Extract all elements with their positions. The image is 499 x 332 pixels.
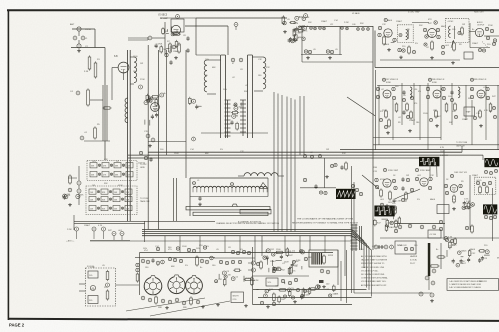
svg-text:1W: 1W (452, 245, 455, 247)
IF interstage network 2 (458, 87, 460, 98)
width coil box (231, 292, 244, 303)
svg-text:10%: 10% (196, 248, 200, 250)
svg-text:ANT: ANT (70, 23, 75, 26)
svg-text:RATIO DET: RATIO DET (474, 11, 485, 14)
resistor R2 (94, 63, 97, 77)
svg-text:TAKE OFF: TAKE OFF (140, 200, 150, 203)
svg-text:SPKR: SPKR (328, 255, 334, 257)
wire (258, 297, 372, 299)
output transformer T10 (309, 250, 338, 267)
resistor R8 (178, 44, 181, 52)
svg-text:1W: 1W (462, 24, 465, 26)
svg-text:CHASSIS GROUND. LINE: CHASSIS GROUND. LINE (361, 266, 385, 269)
svg-text:L30: L30 (414, 89, 417, 91)
right corner circles (484, 170, 487, 173)
svg-text:10%: 10% (205, 59, 209, 61)
tube V16 damper (186, 277, 203, 294)
tuner coil box (190, 196, 268, 198)
antenna terminal C1 (77, 27, 81, 31)
wire AGC line (128, 154, 483, 156)
tube V9 3rd IF (477, 90, 485, 98)
right edge parts (484, 215, 487, 218)
svg-text:WIDTH: WIDTH (233, 296, 240, 298)
wire (160, 17, 196, 19)
channel selector switch bar 2 (193, 212, 268, 215)
wire (147, 45, 149, 230)
parts right of W3 (351, 184, 354, 187)
RF transformer can (171, 19, 184, 32)
wire (71, 47, 105, 49)
wire (372, 26, 374, 250)
speaker terminals (252, 261, 256, 265)
svg-text:6K6 GT: 6K6 GT (287, 252, 296, 254)
wire (374, 31, 376, 68)
page border top (7, 9, 499, 11)
notes box (447, 279, 499, 291)
wire (104, 48, 106, 161)
transformer T3 ladder (242, 100, 244, 136)
svg-text:6AU6: 6AU6 (461, 250, 467, 253)
svg-text:2.2M: 2.2M (90, 267, 95, 269)
hold control dashed box (474, 177, 495, 194)
wire bus vertical drops (273, 92, 275, 232)
wire (147, 37, 149, 40)
wire (253, 289, 367, 291)
svg-text:12AU7: 12AU7 (84, 224, 91, 227)
IF row wires (377, 85, 499, 87)
svg-text:2.2M: 2.2M (344, 22, 349, 24)
wire (158, 50, 160, 230)
svg-text:2ND VIDEO IF: 2ND VIDEO IF (432, 79, 445, 81)
parts on plate line (310, 27, 313, 30)
svg-text:FROM POINT SHOWN TO: FROM POINT SHOWN TO (361, 263, 385, 265)
svg-text:ASTERISK SEE PARTS LIST.: ASTERISK SEE PARTS LIST. (361, 284, 387, 287)
test point TP1 (75, 227, 79, 231)
interlock plug (374, 245, 378, 249)
svg-text:470K: 470K (157, 44, 162, 46)
svg-text:470K: 470K (293, 39, 298, 41)
tuner box left edge (173, 178, 175, 221)
wire (375, 67, 499, 69)
svg-text:DEF OSC V11: DEF OSC V11 (454, 172, 468, 174)
tube V1 mixer (118, 62, 129, 73)
resistor R4 (104, 107, 110, 109)
wire (300, 26, 373, 28)
resistor R5 (94, 128, 97, 138)
svg-text:150V: 150V (182, 246, 187, 248)
interstage parts column (401, 178, 404, 180)
svg-text:PILOT: PILOT (410, 263, 416, 265)
power junction row (395, 223, 445, 225)
wire (111, 68, 113, 101)
divider network block 2 (86, 186, 137, 215)
svg-text:6AU6: 6AU6 (293, 22, 299, 25)
wire (90, 240, 352, 242)
vert osc transformer box (437, 205, 449, 214)
parts above W3 (330, 164, 333, 167)
svg-text:AUDIO: AUDIO (477, 21, 483, 24)
test point TP3 (102, 227, 106, 231)
svg-text:6.3 V AC: 6.3 V AC (410, 259, 418, 262)
svg-text:5%: 5% (294, 266, 297, 268)
wire (135, 257, 215, 259)
waveform photo W3 (336, 189, 356, 199)
tube V10 sync sep (383, 179, 391, 187)
tube V6 audio out (475, 28, 483, 36)
parts below tubes (141, 296, 145, 300)
bus line 1 (142, 229, 352, 231)
wire (201, 132, 268, 134)
svg-text:12AU7: 12AU7 (472, 42, 479, 45)
wire (90, 240, 130, 242)
wire (428, 276, 430, 290)
svg-text:TRAP: TRAP (466, 111, 472, 114)
parts below trap (398, 48, 401, 51)
svg-text:2.2M: 2.2M (396, 201, 401, 203)
svg-text:10%: 10% (143, 248, 147, 250)
svg-text:6AU6: 6AU6 (470, 248, 476, 251)
IF stage 1 parts (376, 87, 379, 90)
capacitor C20 (198, 197, 201, 199)
wire (300, 187, 336, 189)
parts below transformer (320, 269, 324, 273)
svg-text:270K: 270K (140, 79, 145, 81)
wire (373, 144, 499, 146)
svg-text:6AU6: 6AU6 (387, 19, 393, 22)
channel selector switch bar (186, 207, 270, 210)
ground (166, 306, 168, 308)
wire (252, 275, 309, 277)
tube V3 converter (151, 103, 160, 112)
power transformer T12 (351, 224, 353, 251)
svg-text:470K: 470K (118, 185, 123, 187)
wire B+ line (148, 151, 462, 153)
transformer T2 coil (204, 60, 207, 92)
svg-text:6CB6: 6CB6 (386, 82, 391, 84)
wire (380, 237, 499, 239)
svg-text:270K: 270K (90, 289, 95, 291)
parts on vertical (165, 53, 168, 56)
diagonal lead (362, 175, 379, 189)
svg-text:3.3K: 3.3K (84, 71, 89, 73)
IF transformer T1 lower coil (125, 98, 128, 123)
svg-text:NO SIGNAL CONDITIONS.: NO SIGNAL CONDITIONS. (361, 273, 385, 276)
mid row1 mixer cluster (283, 21, 286, 24)
svg-text:12AU7: 12AU7 (173, 50, 180, 53)
wire (74, 220, 215, 222)
trimmer cluster mid (189, 98, 192, 103)
coil slider arrow (260, 183, 268, 189)
bus line 4 (142, 235, 352, 237)
svg-text:12AU7: 12AU7 (460, 262, 467, 265)
svg-text:VACUUM TUBE VOLTMETER: VACUUM TUBE VOLTMETER (361, 259, 388, 262)
tube V5 6T8 (428, 29, 437, 38)
svg-text:5%: 5% (275, 252, 278, 254)
sound trap dashed box (397, 25, 413, 43)
svg-text:ALL VOLTAGES READ WITH: ALL VOLTAGES READ WITH (361, 255, 387, 258)
parts top row (156, 247, 159, 250)
svg-text:470K: 470K (299, 17, 304, 19)
wire (164, 22, 166, 55)
page border left (7, 10, 9, 320)
svg-text:TO SYNC: TO SYNC (140, 198, 149, 200)
svg-text:12AU7: 12AU7 (435, 115, 442, 118)
coil terminals (193, 182, 196, 185)
wire (337, 250, 339, 285)
svg-text:1W: 1W (406, 175, 409, 177)
width coil row (244, 173, 278, 176)
svg-text:4.7K: 4.7K (98, 225, 103, 227)
svg-text:RECEIVER AGREED IT POSSIBLE TO: RECEIVER AGREED IT POSSIBLE TO SERIAL TH… (292, 222, 359, 225)
capacitor C5 (80, 136, 84, 140)
wire (412, 22, 429, 24)
waveform photo W4 (374, 206, 394, 217)
power junction box (395, 241, 416, 254)
capacitor C9 (234, 23, 238, 27)
tube V4 audio IF (384, 29, 392, 37)
ratio det dashed box (446, 18, 469, 42)
svg-text:GRID: GRID (140, 167, 146, 169)
yoke connector bar 2 (240, 209, 271, 214)
svg-text:L22: L22 (330, 24, 333, 26)
svg-text:HEATER: HEATER (410, 255, 418, 258)
svg-text:150V: 150V (423, 113, 428, 115)
svg-text:2.2M: 2.2M (254, 280, 259, 282)
wire vertical returns (363, 241, 365, 268)
svg-text:10%: 10% (223, 89, 227, 91)
svg-text:RF AMP: RF AMP (160, 17, 169, 20)
svg-text:2.2M: 2.2M (67, 229, 72, 231)
page border bottom (8, 319, 499, 321)
test point TP2 (92, 227, 96, 231)
svg-text:V4 6AU6: V4 6AU6 (352, 12, 360, 15)
wire (373, 137, 441, 139)
svg-text:12AU7: 12AU7 (462, 118, 469, 121)
tube V10B sync amp (420, 178, 428, 186)
wire (301, 27, 303, 63)
wire (185, 50, 187, 178)
resistor R1 (88, 57, 91, 69)
vertical output boxed cluster (214, 257, 255, 259)
svg-text:.05: .05 (335, 49, 338, 51)
resistor R7 (169, 44, 172, 52)
svg-text:3RD VIDEO IF: 3RD VIDEO IF (474, 79, 487, 81)
svg-text:5%: 5% (418, 91, 421, 93)
svg-text:+ A B C +: + A B C + (66, 240, 75, 243)
svg-text:C55: C55 (374, 171, 377, 173)
IF interstage network 1 (410, 87, 412, 98)
tube V14 deflection (144, 278, 162, 295)
svg-text:TO PIX: TO PIX (140, 164, 147, 166)
svg-text:.05: .05 (313, 49, 316, 51)
IF transformer T1 core (127, 50, 129, 221)
svg-text:5%: 5% (415, 43, 418, 45)
flyback cluster (468, 259, 470, 261)
parts on distribution lines (139, 151, 142, 154)
capacitor C8 (186, 37, 189, 39)
chassis box (140, 252, 334, 254)
svg-text:VOLTAGES MAY VARY 10%.: VOLTAGES MAY VARY 10%. (361, 280, 387, 283)
tone box (464, 52, 473, 59)
svg-text:5%: 5% (291, 288, 294, 290)
wire (324, 158, 326, 188)
svg-text:150V: 150V (174, 153, 179, 155)
IF stage 2 parts (426, 87, 429, 90)
svg-text:270K: 270K (488, 25, 493, 27)
test point TP4 (112, 232, 116, 236)
svg-text:VOLTAGE 117V AC.: VOLTAGE 117V AC. (361, 269, 379, 272)
IF stage 3 parts (470, 87, 473, 90)
svg-text:C40: C40 (352, 24, 355, 26)
svg-text:470K: 470K (380, 179, 385, 181)
test point TP5 (120, 232, 124, 236)
waveform photo W2 (484, 158, 499, 167)
wire (148, 141, 186, 143)
svg-text:A CHANNEL 8 POSITION: A CHANNEL 8 POSITION (238, 221, 262, 224)
svg-text:5%: 5% (220, 149, 223, 151)
svg-text:150V: 150V (305, 291, 310, 293)
svg-text:12AU7: 12AU7 (409, 119, 416, 122)
svg-text:R47: R47 (449, 122, 452, 124)
tube V2 RF amp (171, 25, 180, 34)
svg-text:5%: 5% (380, 111, 383, 113)
svg-text:TO PIX TUBE: TO PIX TUBE (456, 142, 468, 144)
svg-text:12AU7: 12AU7 (472, 174, 479, 177)
svg-text:5%: 5% (304, 31, 307, 33)
svg-text:4.5 MC: 4.5 MC (448, 21, 454, 23)
wire (90, 99, 103, 101)
wire (72, 28, 95, 30)
bus line 3 (142, 233, 352, 235)
svg-text:6AU6: 6AU6 (430, 198, 436, 201)
svg-text:6AU6: 6AU6 (441, 25, 447, 28)
svg-text:5%: 5% (185, 265, 188, 267)
resistor below box (453, 43, 456, 50)
focus coil assembly (86, 268, 116, 306)
svg-text:OUTPUT: OUTPUT (477, 24, 485, 26)
svg-text:2.2M: 2.2M (466, 201, 471, 203)
svg-text:12AU7: 12AU7 (396, 20, 403, 23)
svg-text:RESISTOR: RESISTOR (479, 281, 488, 283)
capacitor C4 (76, 91, 80, 95)
bus line 2 (142, 231, 352, 233)
wire (74, 223, 145, 225)
screen bypass caps (304, 50, 307, 53)
small stage far right (480, 250, 484, 252)
cluster below sync (393, 216, 395, 219)
svg-text:PAGE 2: PAGE 2 (9, 323, 25, 328)
circled part (192, 137, 196, 141)
svg-text:470: 470 (414, 103, 417, 105)
capacitor C7 (148, 36, 152, 40)
antenna terminal C2 (73, 36, 77, 40)
transformer T2 ladder (227, 100, 229, 138)
svg-text:4.5 MC TRAP: 4.5 MC TRAP (408, 11, 420, 14)
svg-text:THE COORDINATES OF THE MANUFAC: THE COORDINATES OF THE MANUFACTURER OF T… (297, 218, 354, 221)
filter choke dark bar (428, 243, 431, 276)
tube V7 1st IF (383, 90, 391, 98)
wire (351, 166, 353, 293)
audio box outline (252, 247, 254, 305)
transformer T2 core (220, 55, 222, 138)
svg-text:2.2M: 2.2M (304, 294, 309, 296)
svg-text:R60: R60 (374, 167, 377, 169)
svg-text:5%: 5% (417, 199, 420, 201)
svg-text:SYNC AMP: SYNC AMP (420, 169, 431, 172)
svg-text:4 X 100: 4 X 100 (430, 234, 437, 236)
svg-text:6AU6: 6AU6 (384, 43, 390, 46)
volume pot box (266, 278, 278, 286)
tuner oscillator coil L5 (190, 177, 268, 179)
svg-text:HOLD: HOLD (477, 180, 483, 182)
transformer T3 core (247, 55, 249, 138)
waveform photo W5 (483, 204, 497, 214)
svg-text:B BOOST: B BOOST (440, 155, 449, 157)
resistor R3 (87, 90, 90, 105)
svg-text:R9: R9 (398, 122, 400, 124)
waveform photo W1 (419, 157, 439, 167)
tube V8 2nd IF (433, 90, 441, 98)
svg-text:CONTROLS SET AT NORMAL.: CONTROLS SET AT NORMAL. (361, 277, 389, 280)
wire (469, 31, 475, 33)
IF transformer T1 upper coil (134, 57, 137, 83)
ground (175, 56, 177, 58)
svg-text:1W: 1W (433, 110, 436, 112)
parts below V3 (146, 134, 150, 138)
trimmer C10 (139, 85, 143, 89)
test point column (77, 181, 81, 185)
svg-text:12AU7: 12AU7 (270, 260, 277, 263)
tube V11 osc (450, 185, 458, 193)
svg-text:VOL: VOL (268, 282, 272, 284)
S-curve lead (395, 189, 420, 199)
svg-text:180: 180 (416, 122, 419, 124)
svg-text:5%: 5% (240, 249, 243, 251)
transformer T3 coil (263, 57, 266, 89)
tube V15 deflection (168, 277, 185, 294)
lead to waveform (436, 165, 438, 177)
parts above tubes (141, 259, 145, 263)
svg-text:1W: 1W (140, 63, 143, 65)
wire (461, 146, 463, 152)
bus to chassis drops (164, 236, 166, 253)
wire (340, 149, 499, 151)
svg-text:1W: 1W (92, 185, 95, 187)
svg-text:6CB6: 6CB6 (432, 82, 437, 84)
wire (185, 25, 228, 27)
svg-text:1ST VIDEO IF: 1ST VIDEO IF (386, 79, 399, 81)
ground (78, 49, 80, 51)
svg-text:COIL: COIL (233, 299, 237, 301)
svg-text:1W: 1W (326, 149, 329, 151)
svg-text:250V: 250V (440, 151, 445, 153)
slug arrow (451, 40, 454, 48)
deflection diagonal leads (126, 298, 205, 311)
svg-text:5%: 5% (206, 246, 209, 248)
svg-text:12AU7: 12AU7 (321, 20, 328, 23)
wire heater line (128, 157, 420, 159)
mixer coupling diagonal (347, 97, 375, 116)
svg-text:SYNC SEP: SYNC SEP (388, 170, 399, 172)
svg-text:10%: 10% (470, 205, 474, 207)
trimmer capacitors (231, 58, 235, 62)
rectifier parts (432, 269, 436, 273)
wire (380, 59, 460, 61)
wire (166, 50, 168, 155)
svg-text:V2 6BC5: V2 6BC5 (158, 15, 168, 17)
resistor chain below W4 (395, 221, 398, 227)
left parts column (136, 263, 139, 266)
